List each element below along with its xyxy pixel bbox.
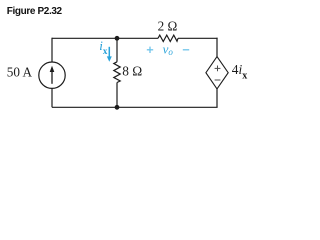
- wire right branch lower: [216, 89, 218, 108]
- svg-text:4ix: 4ix: [232, 62, 247, 81]
- svg-text:50 A: 50 A: [7, 65, 33, 80]
- wire bottom segment: [52, 106, 218, 108]
- wire top-right segment: [178, 37, 218, 39]
- wire right branch upper: [216, 38, 218, 57]
- voltage label minus sign (blue): [183, 49, 189, 51]
- svg-text:vo: vo: [163, 41, 174, 57]
- current source I1 50A circle: [39, 62, 65, 88]
- wire left branch upper: [51, 38, 53, 63]
- dependent source U1 diamond 4ix: [206, 57, 228, 89]
- svg-text:2 Ω: 2 Ω: [158, 19, 178, 34]
- wire top-left segment: [52, 37, 117, 39]
- svg-text:ix: ix: [99, 38, 108, 56]
- svg-text:Figure P2.32: Figure P2.32: [7, 6, 63, 17]
- voltage label plus sign (blue): [147, 47, 153, 53]
- resistor R1 8ohm zigzag: [114, 62, 120, 83]
- resistor R2 2ohm zigzag: [158, 35, 178, 41]
- node junction top (117,38): [115, 36, 120, 41]
- dependent source plus sign: [215, 66, 221, 72]
- svg-text:8 Ω: 8 Ω: [122, 63, 142, 78]
- node junction bottom (117,107): [115, 105, 120, 110]
- wire middle branch upper: [116, 38, 118, 62]
- wire left branch lower: [51, 88, 53, 107]
- wire top-middle segment: [117, 37, 158, 39]
- wire middle branch lower: [116, 83, 118, 108]
- current source arrow: [50, 66, 55, 84]
- current arrow ix (blue, downward): [107, 47, 112, 62]
- dependent source minus sign: [215, 79, 221, 81]
